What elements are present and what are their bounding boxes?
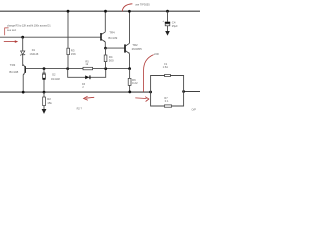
wire R7 lower loop — [151, 92, 184, 107]
node D2 rail junction — [43, 91, 46, 94]
svg-text:+: + — [162, 19, 164, 23]
diode D1 zener — [20, 51, 25, 56]
svg-text:0.22: 0.22 — [132, 81, 138, 85]
node down arrow under R2 — [42, 109, 47, 114]
svg-text:15k: 15k — [47, 101, 52, 105]
node TR4 emitter / TR2 base junction — [104, 47, 107, 50]
svg-text:1N4148: 1N4148 — [30, 53, 39, 56]
node top rail junction x=68 — [67, 10, 70, 13]
wire zener to TR3 collector — [22, 55, 25, 66]
svg-text:BC139: BC139 — [108, 36, 117, 40]
svg-text:O/P: O/P — [192, 108, 197, 112]
wire TR4 emitter down — [104, 42, 106, 48]
svg-text:see text: see text — [7, 28, 16, 32]
resistor R3 — [67, 48, 70, 54]
wire to R6 — [129, 69, 131, 79]
red bracket pointer — [5, 28, 9, 35]
red annotations — [4, 3, 159, 111]
node down arrow under C4 — [165, 31, 170, 36]
wire upper-left horizontal (base feed) — [0, 36, 100, 38]
wire vertical x=68 from top rail to R3 — [67, 11, 69, 48]
wire TR3 emitter down to bottom rail — [22, 75, 24, 93]
svg-text:22R: 22R — [154, 52, 159, 56]
diode D3 — [85, 75, 90, 79]
transistor TR2 (output 2N3055) — [125, 43, 130, 53]
wire R3 to mid junction — [67, 55, 69, 69]
node top rail junction TR4 — [104, 10, 107, 13]
wire TR4 collector to top rail — [104, 11, 106, 32]
wire C2 branch upper — [43, 69, 45, 74]
svg-text:TR3: TR3 — [10, 63, 16, 67]
resistor R4 — [104, 55, 107, 62]
svg-text:BC108: BC108 — [9, 70, 18, 74]
node rail junction right of R7 loop — [182, 90, 185, 93]
wire D2 to bottom rail — [43, 80, 45, 92]
node C2 branch junction — [43, 67, 46, 70]
resistor R6 — [128, 78, 131, 85]
svg-text:D2: D2 — [52, 73, 56, 77]
fuse FS1 — [165, 74, 171, 76]
svg-text:500: 500 — [109, 59, 114, 63]
diode D2 package style — [42, 73, 45, 80]
svg-text:25µF: 25µF — [172, 24, 178, 28]
wire bottom rail left section — [0, 91, 151, 93]
wire R6 to bottom rail — [129, 85, 131, 92]
resistor R5 on mid wire — [83, 67, 93, 70]
wire TR2 emitter down to mid wire — [129, 54, 131, 69]
wire C3 upper loop — [151, 76, 184, 93]
wire TR2 base — [106, 47, 125, 49]
svg-text:15K: 15K — [71, 52, 76, 56]
node R6 rail junction — [128, 91, 131, 94]
red curve top — [122, 4, 132, 12]
wire vertical from node down to zener — [22, 37, 24, 50]
svg-text:1.5A: 1.5A — [163, 65, 169, 69]
svg-text:1N4148: 1N4148 — [51, 78, 60, 81]
svg-text:2N3055: 2N3055 — [132, 47, 143, 51]
svg-text:0.1: 0.1 — [165, 99, 169, 103]
red arrow bottom left-pointing — [85, 96, 94, 99]
resistor R2 below rail with arrow — [43, 92, 45, 97]
node TR2 emitter mid junction — [128, 67, 131, 70]
svg-text:TR4: TR4 — [109, 31, 115, 35]
wire TR2 collector to top rail — [129, 11, 131, 43]
svg-text:change R3 to 12K and fit 100n: change R3 to 12K and fit 100n across D1 — [7, 24, 51, 28]
svg-text:R2 ?: R2 ? — [77, 107, 83, 110]
transistor TR4 (middle driver) — [101, 32, 105, 42]
red arrow left — [4, 41, 16, 43]
capacitor C4 electrolytic top right — [166, 10, 169, 13]
wire TR4 emitter node through R4 to mid junction — [105, 48, 107, 69]
svg-text:use TIP3055: use TIP3055 — [135, 3, 150, 7]
svg-text:2: 2 — [82, 86, 84, 89]
red arrow bottom right-pointing — [135, 97, 146, 100]
node rail junction left of R7 loop — [149, 91, 152, 94]
node R3 / D3 branch junction — [66, 67, 69, 70]
node TR3 emitter rail junction — [22, 91, 25, 94]
node R4 bottom junction — [104, 67, 107, 70]
wire bottom rail right stub — [184, 91, 200, 93]
node top rail junction TR2 — [128, 10, 131, 13]
transistor TR3 (left, base to right) — [23, 65, 25, 75]
svg-text:D1: D1 — [32, 48, 36, 52]
wire D3 lower parallel branch — [68, 69, 106, 78]
wire top supply rail — [0, 10, 200, 12]
red curve right down to rail — [144, 55, 154, 92]
wire R2 tail — [43, 106, 45, 110]
resistor R7 — [164, 105, 171, 107]
wire main mid horizontal (TR3 base to TR2 emitter line) — [26, 68, 130, 70]
node junction on upper-left wire — [21, 36, 24, 39]
